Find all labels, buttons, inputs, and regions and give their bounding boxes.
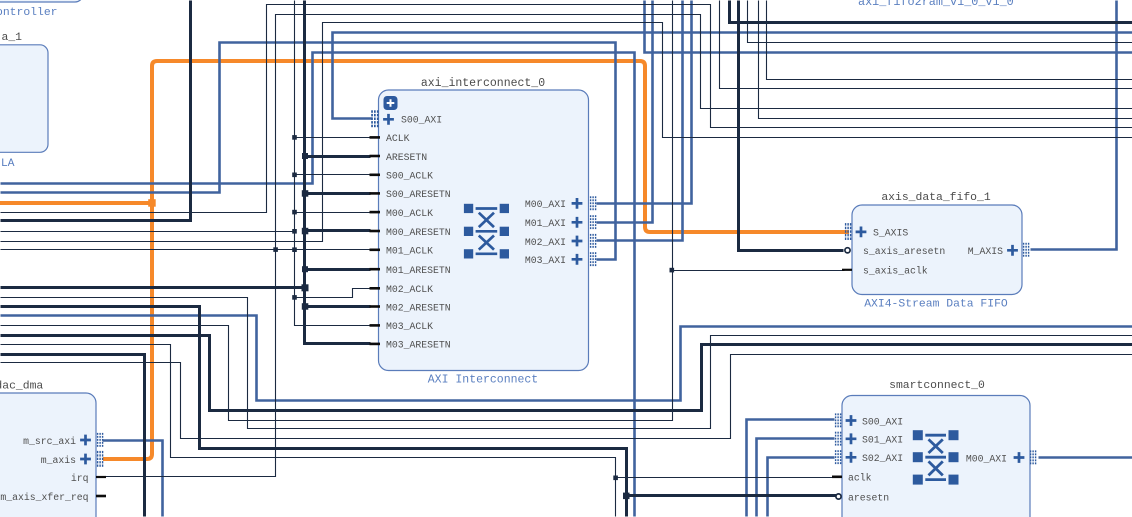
wire thick feed S00_ARESETN <box>305 192 371 195</box>
svg-text:AXI Interconnect: AXI Interconnect <box>428 374 538 387</box>
connector M_AXIS <box>1023 243 1029 257</box>
wire thin left y297 down right y428 up x710 exit y335 <box>1 298 1132 429</box>
block axis_data_fifo_1 <box>852 205 1022 295</box>
wire blue S01_AXI smartconnect from bottom <box>757 439 835 517</box>
icon crossbar axi_interconnect <box>464 204 509 259</box>
wire orange m_axis to S_AXIS <box>103 61 849 459</box>
junction ACLK <box>292 135 297 140</box>
connector S00_AXI axi_interconnect <box>371 110 378 127</box>
stub ACLK <box>370 136 381 139</box>
wire thin left y230 to ACLK bus <box>1 231 295 233</box>
svg-text:ACLK: ACLK <box>386 133 410 144</box>
junction M01_ARESETN <box>302 266 308 272</box>
svg-text:axi_interconnect_0: axi_interconnect_0 <box>421 77 545 90</box>
inverter circle aresetn smartconnect <box>836 494 841 499</box>
svg-text:S_AXIS: S_AXIS <box>873 228 908 239</box>
wire blue M_AXIS up to top <box>1031 1 1117 250</box>
svg-text:M00_AXI: M00_AXI <box>525 199 566 210</box>
wire thick ARESETN bus x305 <box>305 1 371 344</box>
block dac_dma (partial, bottom-left) <box>0 393 96 517</box>
plus M_AXIS <box>1007 245 1018 256</box>
connector S00_AXI smartconnect <box>835 413 841 427</box>
wire thick left y288 to ARESETN bus <box>1 286 305 289</box>
wire blue left y183 up x313 right y52 down x634 to bottom <box>1 53 635 517</box>
junction M02_ARESETN <box>302 303 309 310</box>
wire thin left y362 down right y438 up x730 exit y354 <box>1 355 1132 439</box>
stub M02_ACLK <box>370 287 381 290</box>
wire thin ACLK bus x294 <box>295 1 371 326</box>
wire thick aresetn smartconnect <box>627 494 837 497</box>
svg-text:S01_AXI: S01_AXI <box>862 435 903 446</box>
junction S00_ARESETN <box>302 190 309 197</box>
junction M02_ACLK <box>292 295 297 300</box>
stub S00_ARESETN <box>370 192 381 195</box>
junction S00_ACLK <box>292 173 297 178</box>
wire blue M00_AXI up to top <box>597 1 692 204</box>
junction M00_ARESETN <box>302 228 309 235</box>
plus M03_AXI <box>572 254 583 265</box>
icon crossbar smartconnect <box>913 430 959 484</box>
wire thick s_axis_aresetn from top <box>739 1 844 251</box>
plus M01_AXI <box>572 217 583 228</box>
svg-text:M00_ACLK: M00_ACLK <box>386 208 433 219</box>
junction y230 on ACLK bus <box>292 229 297 234</box>
svg-text:m_axis_xfer_req: m_axis_xfer_req <box>0 492 88 503</box>
plus S00_AXI smartconnect <box>846 415 857 426</box>
connector M02_AXI <box>590 234 596 248</box>
stub M00_ACLK <box>370 211 381 214</box>
svg-text:s_axis_aresetn: s_axis_aresetn <box>863 246 945 257</box>
svg-text:a_1: a_1 <box>2 32 23 44</box>
svg-text:ILA: ILA <box>0 158 15 170</box>
connector S01_AXI smartconnect <box>835 432 841 446</box>
svg-text:M00_AXI: M00_AXI <box>966 453 1007 464</box>
wire thin s_axis_aclk bus x672 left y420 up x228 left y325 <box>1 1 673 421</box>
block controller (partial, top-left) <box>0 0 83 2</box>
stub M03_ACLK <box>370 324 381 327</box>
wire thin aclk smartconnect <box>616 477 837 479</box>
junction y288 thick <box>302 284 309 291</box>
svg-text:M03_ACLK: M03_ACLK <box>386 321 433 332</box>
wire thin feed s_axis_aclk <box>673 270 845 272</box>
svg-text:S00_ACLK: S00_ACLK <box>386 171 433 182</box>
svg-text:M_AXIS: M_AXIS <box>968 246 1003 257</box>
wire thin feed S00_ACLK <box>295 174 371 176</box>
plus m_src_axi <box>80 435 91 446</box>
wire thin from top x747 exit y42 <box>748 1 1132 43</box>
svg-text:dac_dma: dac_dma <box>0 381 43 393</box>
plus M02_AXI <box>572 236 583 247</box>
connector M01_AXI <box>590 215 596 229</box>
svg-text:ARESETN: ARESETN <box>386 152 427 163</box>
svg-text:irq: irq <box>71 473 89 484</box>
stub m_axis_xfer_req <box>96 495 106 498</box>
wire thin feed ACLK <box>295 137 371 139</box>
wire thin from top x758 exit y118 <box>759 1 1132 119</box>
plus M00_AXI <box>572 198 583 209</box>
wire blue M03_AXI net <box>1 43 616 260</box>
svg-text:m_src_axi: m_src_axi <box>23 436 76 447</box>
connector S_AXIS <box>845 223 851 240</box>
plus S00_AXI <box>383 114 394 125</box>
wire thick feed M01_ARESETN <box>305 268 371 271</box>
wire thin from top x719 exit y88 <box>720 1 1132 89</box>
junction aclk smartconnect <box>613 476 618 481</box>
wire thin left y249 to M01_ACLK <box>1 249 371 251</box>
plus S02_AXI smartconnect <box>846 452 857 463</box>
wire blue from top x644 right y52 exit <box>645 1 1132 53</box>
junction s_axis_aclk feed <box>670 268 675 273</box>
stub S00_ACLK <box>370 174 381 177</box>
wire thin net W1 <box>1 5 1132 213</box>
svg-text:axi_fifo2ram_v1_0_v1_0: axi_fifo2ram_v1_0_v1_0 <box>858 0 1014 9</box>
wire blue S02_AXI smartconnect from bottom <box>768 458 835 517</box>
junction aresetn smartconnect <box>623 493 630 500</box>
svg-text:s_axis_aclk: s_axis_aclk <box>863 266 928 277</box>
wire thin net W3 <box>1 23 1132 242</box>
wire blue M02_AXI up to top <box>597 1 683 241</box>
plus S_AXIS <box>856 227 867 238</box>
wire thick feed M00_ARESETN <box>305 229 371 232</box>
junction M01_ACLK <box>292 247 297 252</box>
connector M00_AXI <box>590 196 596 210</box>
svg-text:M03_AXI: M03_AXI <box>525 255 566 266</box>
svg-text:S02_AXI: S02_AXI <box>862 453 903 464</box>
wire thin left y345 down right y457 down x615 to bottom <box>1 345 616 517</box>
junction y249 x275 <box>273 247 278 252</box>
stub ARESETN <box>370 155 381 158</box>
connector m_axis <box>97 451 103 467</box>
svg-text:M02_AXI: M02_AXI <box>525 237 566 248</box>
svg-text:M01_ACLK: M01_ACLK <box>386 246 433 257</box>
svg-text:ontroller: ontroller <box>0 7 58 19</box>
svg-text:S00_AXI: S00_AXI <box>401 115 442 126</box>
plus m_axis <box>80 454 91 465</box>
stub irq <box>96 476 106 478</box>
wire thick left y221 up x190 to top <box>1 1 191 221</box>
svg-text:AXI4-Stream Data FIFO: AXI4-Stream Data FIFO <box>864 299 1008 311</box>
connector S02_AXI smartconnect <box>835 450 841 464</box>
block smartconnect_0 (partial) <box>842 396 1030 517</box>
svg-text:M03_ARESETN: M03_ARESETN <box>386 340 451 351</box>
stub M01_ARESETN <box>370 268 381 271</box>
svg-text:aclk: aclk <box>848 473 872 484</box>
stub aclk smartconnect <box>832 476 842 479</box>
stub M01_ACLK <box>370 249 381 252</box>
junction orange net <box>148 199 156 207</box>
svg-text:smartconnect_0: smartconnect_0 <box>889 380 985 392</box>
wire blue S00_AXI net exit right y33 <box>333 33 1132 119</box>
stub M03_ARESETN <box>370 343 381 346</box>
svg-text:M01_ARESETN: M01_ARESETN <box>386 265 451 276</box>
wire thick left y306 down right y448 down x626 to bottom <box>1 307 627 517</box>
expand button axi_interconnect_0 <box>384 96 398 110</box>
connector M03_AXI <box>590 252 596 266</box>
svg-text:M02_ACLK: M02_ACLK <box>386 284 433 295</box>
plus S01_AXI smartconnect <box>846 433 857 444</box>
svg-text:M01_AXI: M01_AXI <box>525 218 566 229</box>
stub s_axis_aclk <box>842 269 852 271</box>
svg-text:axis_data_fifo_1: axis_data_fifo_1 <box>881 192 991 204</box>
wire thin feed M00_ACLK <box>295 212 371 214</box>
wire blue left y315 down right y400 up x681 exit y326 <box>1 316 1132 401</box>
wire thin feed M02_ACLK jog <box>295 289 371 298</box>
wire blue M00_AXI smartconnect exit right <box>1039 456 1132 459</box>
wire thick feed ARESETN <box>305 155 371 158</box>
svg-text:M02_ARESETN: M02_ARESETN <box>386 302 451 313</box>
plus M00_AXI smartconnect <box>1014 452 1025 463</box>
stub M02_ARESETN <box>370 305 381 308</box>
connector m_src_axi <box>97 433 103 447</box>
block axi_interconnect_0 <box>379 90 589 371</box>
wire thick feed M02_ARESETN <box>305 305 371 308</box>
wire thick left y354 down x144 to bottom <box>1 355 145 517</box>
wire orange branch from left edge <box>0 201 150 205</box>
stub M00_ARESETN <box>370 230 381 233</box>
wire blue m_src_axi to bottom edge <box>103 441 163 517</box>
wire thick left y335 down right y411 up x701 exit y344 <box>1 336 1132 411</box>
junction ARESETN <box>302 153 308 159</box>
wire thick from top x729 exit right y22 <box>730 1 1132 23</box>
svg-text:S00_ARESETN: S00_ARESETN <box>386 189 451 200</box>
svg-text:m_axis: m_axis <box>41 455 76 466</box>
svg-text:aresetn: aresetn <box>848 492 889 503</box>
wire blue M01_AXI up to top <box>597 1 653 223</box>
wire blue S00_AXI smartconnect from bottom <box>747 420 835 517</box>
block ila_1 (partial) <box>0 45 48 153</box>
wire thin from top x766 exit y79 <box>767 1 1132 80</box>
svg-text:S00_AXI: S00_AXI <box>862 416 903 427</box>
junction M00_ACLK <box>292 210 297 215</box>
svg-text:M00_ARESETN: M00_ARESETN <box>386 227 451 238</box>
connector M00_AXI smartconnect <box>1030 450 1036 464</box>
inverter circle s_axis_aresetn <box>845 248 850 253</box>
